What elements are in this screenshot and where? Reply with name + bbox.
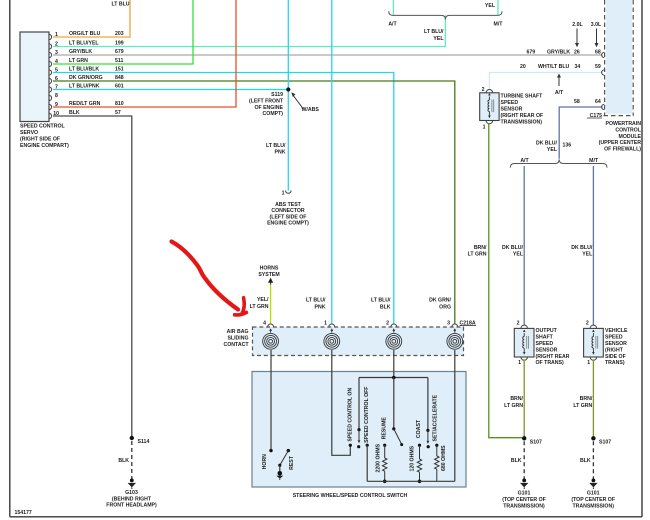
ABS test connector pin 1 bump xyxy=(286,191,292,194)
turbine sensor coil symbol xyxy=(488,93,494,118)
svg-text:CONNECTOR: CONNECTOR xyxy=(271,208,305,214)
svg-text:LT BLU: LT BLU xyxy=(111,2,129,8)
svg-text:1: 1 xyxy=(587,360,590,366)
clockspring spiral pin 2 xyxy=(386,328,402,349)
frame bottom border xyxy=(10,516,642,518)
svg-text:GRY/BLK: GRY/BLK xyxy=(69,49,92,55)
svg-text:2: 2 xyxy=(517,321,520,327)
svg-text:LT GRN: LT GRN xyxy=(573,403,592,409)
resistor bus wire xyxy=(367,480,455,482)
svg-text:WHT/LT BLU: WHT/LT BLU xyxy=(538,64,570,70)
svg-text:679: 679 xyxy=(527,49,536,55)
turbine shaft speed sensor box xyxy=(480,93,499,121)
svg-text:PNK: PNK xyxy=(315,304,326,310)
svg-text:2: 2 xyxy=(482,87,485,93)
resume contact, resistor 2200 ohms xyxy=(383,444,386,447)
svg-text:BLK: BLK xyxy=(511,458,522,464)
vehicle speed sensor box xyxy=(584,328,604,357)
svg-text:OF FIREWALL): OF FIREWALL) xyxy=(604,147,641,153)
svg-text:68: 68 xyxy=(595,49,601,55)
wire pin7 LT BLU/PNK 601 xyxy=(53,89,288,91)
wire LT BLU/PNK vertical to ABS test connector xyxy=(287,0,289,191)
label 679 GRY/BLK 26 68 (right) xyxy=(527,49,601,55)
svg-text:1: 1 xyxy=(324,320,327,326)
svg-text:(RIGHT: (RIGHT xyxy=(605,347,624,353)
wire BLK dashed to ground G101 (right) xyxy=(592,441,594,479)
output shaft speed sensor box xyxy=(514,328,534,357)
svg-text:COAST: COAST xyxy=(416,419,422,438)
A/T pointer arrow (WHT/LT BLU) xyxy=(555,74,564,97)
set/accelerate contact, resistor 680 ohms xyxy=(435,444,438,447)
svg-text:STEERING WHEEL/SPEED CONTROL S: STEERING WHEEL/SPEED CONTROL SWITCH xyxy=(293,493,408,499)
svg-text:(TOP CENTER OF: (TOP CENTER OF xyxy=(571,497,615,503)
svg-text:8: 8 xyxy=(55,93,58,99)
svg-text:M/T: M/T xyxy=(494,22,504,28)
svg-text:SPEED: SPEED xyxy=(501,100,519,106)
svg-text:136: 136 xyxy=(563,143,572,149)
wire pin3 GRY/BLK 679 to PCM xyxy=(53,54,603,56)
red annotation arrow xyxy=(172,242,247,315)
svg-text:4: 4 xyxy=(263,320,266,326)
svg-text:(RIGHT REAR OF: (RIGHT REAR OF xyxy=(501,113,544,119)
svg-text:TURBINE SHAFT: TURBINE SHAFT xyxy=(501,93,544,99)
svg-text:1: 1 xyxy=(282,190,285,196)
svg-text:LT BLU/PNK: LT BLU/PNK xyxy=(69,84,100,90)
svg-text:CONTACT: CONTACT xyxy=(224,342,250,348)
svg-text:GRY/BLK: GRY/BLK xyxy=(547,49,570,55)
wire pin10 BLK 57 down to S114 xyxy=(53,116,132,438)
svg-text:YEL: YEL xyxy=(485,3,496,9)
wire pin5 LT BLU/BLK 151 down to air bag pin 2 xyxy=(53,73,394,325)
wire pin9 RED/LT GRN 810 xyxy=(53,0,236,107)
rail center drop to resume/coast lever xyxy=(393,378,395,429)
switch rail wire xyxy=(359,377,428,379)
svg-text:DK BLU/: DK BLU/ xyxy=(536,141,558,147)
VSS pin 1 bump xyxy=(590,357,597,360)
svg-text:A/T: A/T xyxy=(520,158,529,164)
clockspring spiral pin 4 xyxy=(263,328,279,349)
svg-text:DK BLU/: DK BLU/ xyxy=(502,245,524,251)
svg-text:LT BLU/BLK: LT BLU/BLK xyxy=(69,67,99,73)
wire air bag pin2 to switch rail xyxy=(393,350,395,378)
label G103 (BEHIND RIGHT FRONT HEADLAMP) xyxy=(106,490,157,509)
clockspring spiral pin 1 xyxy=(324,328,340,349)
VSS pin 2 bump xyxy=(590,325,597,328)
svg-text:ABS TEST: ABS TEST xyxy=(275,202,301,208)
svg-text:LT GRN: LT GRN xyxy=(468,252,487,258)
svg-text:810: 810 xyxy=(115,101,124,107)
rail right drop, set/accelerate switch xyxy=(427,378,429,431)
brace grouping A/T and M/T of LT BLU/YEL xyxy=(389,11,502,19)
svg-text:(BEHIND RIGHT: (BEHIND RIGHT xyxy=(112,496,152,502)
VSS coil symbol xyxy=(592,330,598,355)
svg-text:SPEED: SPEED xyxy=(536,341,554,347)
svg-text:ORG: ORG xyxy=(439,304,451,310)
svg-text:YEL: YEL xyxy=(582,252,593,258)
PCM dashed border xyxy=(604,0,634,116)
clockspring spiral pin 3 xyxy=(447,328,463,349)
svg-text:26: 26 xyxy=(574,49,580,55)
svg-text:2: 2 xyxy=(386,320,389,326)
svg-text:SIDE OF: SIDE OF xyxy=(605,354,626,360)
servo pin bumps 1-10 xyxy=(49,34,52,118)
svg-text:199: 199 xyxy=(115,41,124,47)
svg-text:COMPT): COMPT) xyxy=(263,111,284,117)
svg-text:BRN/: BRN/ xyxy=(474,245,487,251)
svg-text:680 OHMS: 680 OHMS xyxy=(441,445,447,471)
svg-text:HORN: HORN xyxy=(262,454,268,470)
svg-text:BLK: BLK xyxy=(380,304,391,310)
svg-text:1: 1 xyxy=(518,360,521,366)
wire BRN/LT GRN from turbine sensor pin 1 to S107 xyxy=(489,123,522,437)
svg-text:58: 58 xyxy=(574,99,580,105)
wire BLK dashed to ground G103 xyxy=(131,441,133,479)
svg-text:G101: G101 xyxy=(587,491,600,497)
svg-text:ENGINE COMPART): ENGINE COMPART) xyxy=(20,143,69,149)
svg-text:203: 203 xyxy=(115,31,124,37)
svg-text:SPEED: SPEED xyxy=(605,335,623,341)
svg-text:MODULE: MODULE xyxy=(619,134,642,140)
svg-text:511: 511 xyxy=(115,58,123,64)
svg-text:DK BLU/: DK BLU/ xyxy=(571,245,593,251)
OSS pin 2 bump xyxy=(521,325,528,328)
svg-text:20: 20 xyxy=(520,64,526,70)
svg-text:OUTPUT: OUTPUT xyxy=(536,328,558,334)
frame right border xyxy=(641,0,643,517)
svg-text:151: 151 xyxy=(115,67,124,73)
svg-text:REST: REST xyxy=(289,455,295,470)
3.0L pointer arrow xyxy=(591,22,602,47)
svg-text:SLIDING: SLIDING xyxy=(227,336,248,342)
svg-text:ENGINE COMPT): ENGINE COMPT) xyxy=(267,221,309,227)
air bag sliding contact box xyxy=(253,327,464,356)
svg-text:LT GRN: LT GRN xyxy=(504,403,523,409)
splice S107 dot (right) xyxy=(591,436,595,440)
svg-text:TRANSMISSION): TRANSMISSION) xyxy=(572,503,614,509)
svg-text:1: 1 xyxy=(483,125,486,131)
svg-text:SENSOR: SENSOR xyxy=(501,106,523,112)
svg-text:FRONT HEADLAMP): FRONT HEADLAMP) xyxy=(106,503,157,509)
svg-text:LT BLU/: LT BLU/ xyxy=(371,298,391,304)
svg-text:S119: S119 xyxy=(271,92,283,98)
svg-text:SYSTEM: SYSTEM xyxy=(258,272,279,278)
svg-text:BLK: BLK xyxy=(580,458,591,464)
wire pin4 LT GRN 511 xyxy=(53,0,193,64)
svg-text:SPEED CONTROL ON: SPEED CONTROL ON xyxy=(348,388,354,442)
svg-text:YEL: YEL xyxy=(513,252,524,258)
coast contact, resistor 120 ohms xyxy=(418,444,421,447)
ground G103 symbol xyxy=(128,479,136,490)
PCM pin bumps xyxy=(602,52,605,109)
arrow to horns system xyxy=(268,278,273,285)
svg-text:679: 679 xyxy=(115,49,124,55)
svg-text:64: 64 xyxy=(595,99,601,105)
svg-text:(RIGHT SIDE OF: (RIGHT SIDE OF xyxy=(20,136,60,142)
svg-text:120 OHMS: 120 OHMS xyxy=(410,445,416,471)
svg-text:TRANSMISSION): TRANSMISSION) xyxy=(503,503,545,509)
svg-text:34: 34 xyxy=(575,64,581,70)
ground G101 symbol (right) xyxy=(589,479,597,490)
svg-text:PNK: PNK xyxy=(275,150,286,156)
turbine sensor pin 2 bump xyxy=(486,89,493,92)
svg-text:TRANSMISSION): TRANSMISSION) xyxy=(501,119,543,125)
svg-text:(TOP CENTER OF: (TOP CENTER OF xyxy=(502,497,546,503)
svg-text:VEHICLE: VEHICLE xyxy=(605,328,628,334)
speed control servo connector box xyxy=(20,32,49,122)
svg-text:(UPPER CENTER: (UPPER CENTER xyxy=(599,140,642,146)
2.0L pointer arrow xyxy=(572,22,583,47)
svg-text:2200 OHMS: 2200 OHMS xyxy=(375,443,381,472)
svg-text:OF TRANS): OF TRANS) xyxy=(536,360,565,366)
svg-text:TRANS): TRANS) xyxy=(605,360,625,366)
speed control on/off switch xyxy=(357,428,360,431)
svg-text:DK GRN/: DK GRN/ xyxy=(429,298,451,304)
label POWERTRAIN CONTROL MODULE xyxy=(599,121,642,153)
svg-text:SENSOR: SENSOR xyxy=(605,341,627,347)
ground G101 symbol (left) xyxy=(520,479,528,490)
label VEHICLE SPEED SENSOR xyxy=(605,328,628,366)
horn switch ground arrow xyxy=(276,476,283,479)
svg-text:G101: G101 xyxy=(518,491,531,497)
label S119 (LEFT FRONT OF ENGINE COMPT) xyxy=(249,92,284,117)
wire BLK dashed to ground G101 (left) xyxy=(523,441,525,479)
svg-text:DK GRN/ORG: DK GRN/ORG xyxy=(69,75,103,81)
svg-text:S114: S114 xyxy=(138,439,150,445)
svg-text:S107: S107 xyxy=(599,439,611,445)
splice S107 dot (left) xyxy=(522,436,526,440)
svg-text:YEL: YEL xyxy=(547,147,558,153)
svg-text:848: 848 xyxy=(115,75,124,81)
svg-text:HORNS: HORNS xyxy=(260,266,279,272)
wire air bag pin1 to speed control on contact xyxy=(332,350,351,455)
svg-text:LT BLU/: LT BLU/ xyxy=(306,298,326,304)
svg-text:OF ENGINE: OF ENGINE xyxy=(254,105,283,111)
svg-text:154177: 154177 xyxy=(15,510,32,516)
W/ABS arrow to splice xyxy=(291,92,319,113)
svg-text:LT BLU/YEL: LT BLU/YEL xyxy=(69,41,99,47)
label G101 (TOP CENTER OF TRANSMISSION) (left) xyxy=(502,491,546,510)
svg-text:CONTROL: CONTROL xyxy=(615,127,641,133)
svg-text:3: 3 xyxy=(447,320,450,326)
brace grouping A/T and M/T of DK BLU/YEL xyxy=(510,159,607,167)
svg-text:YEL: YEL xyxy=(433,36,444,42)
servo pin numbers xyxy=(53,32,59,117)
wire DK BLU/YEL from PCM pin 58/64 xyxy=(559,107,602,159)
svg-text:BRN/: BRN/ xyxy=(580,396,593,402)
svg-text:ORG/LT BLU: ORG/LT BLU xyxy=(69,31,101,37)
svg-text:(LEFT SIDE OF: (LEFT SIDE OF xyxy=(270,214,307,220)
wire pin2 LT BLU/YEL 199 xyxy=(53,15,445,46)
svg-text:POWERTRAIN: POWERTRAIN xyxy=(606,121,642,127)
svg-text:LT GRN: LT GRN xyxy=(69,58,88,64)
svg-text:YEL/: YEL/ xyxy=(257,297,269,303)
wire pin1 ORG/LT BLU 203 xyxy=(53,0,130,37)
label 20 WHT/LT BLU 34 59 xyxy=(520,64,601,70)
svg-text:S107: S107 xyxy=(530,439,542,445)
speed control off contact and wire to bus xyxy=(366,444,369,447)
svg-text:A/T: A/T xyxy=(555,90,564,96)
svg-text:BLK: BLK xyxy=(118,458,129,464)
splice S119 dot xyxy=(286,87,290,91)
label TURBINE SHAFT SPEED SENSOR xyxy=(501,93,544,125)
OSS coil symbol xyxy=(523,330,529,355)
svg-text:LT GRN: LT GRN xyxy=(250,304,269,310)
svg-text:SHAFT: SHAFT xyxy=(536,335,554,341)
svg-text:SENSOR: SENSOR xyxy=(536,347,558,353)
svg-text:G103: G103 xyxy=(125,490,138,496)
svg-text:AIR BAG: AIR BAG xyxy=(227,329,249,335)
speed control servo caption xyxy=(20,124,69,149)
wire BRN/LT GRN from OSS pin 1 to S107 xyxy=(523,359,525,437)
svg-text:BLK: BLK xyxy=(69,110,80,116)
svg-text:59: 59 xyxy=(595,64,601,70)
svg-text:2.0L: 2.0L xyxy=(572,22,583,28)
wire air bag pin3 to resistor bus xyxy=(454,350,456,481)
svg-text:RESUME: RESUME xyxy=(381,417,387,440)
rail left drop wire xyxy=(358,378,360,430)
wire BRN/LT GRN from VSS pin 1 to S107 (right) xyxy=(592,359,594,437)
label AIR BAG SLIDING CONTACT xyxy=(224,329,250,348)
svg-text:BRN/: BRN/ xyxy=(510,396,523,402)
svg-text:M/T: M/T xyxy=(589,158,599,164)
svg-text:SET/ACCELERATE: SET/ACCELERATE xyxy=(433,394,439,441)
svg-text:A/T: A/T xyxy=(388,22,397,28)
horn switch contacts xyxy=(269,449,272,452)
PCM fill xyxy=(606,0,632,114)
svg-text:LT BLU/: LT BLU/ xyxy=(424,29,444,35)
wire pin6 DK GRN/ORG 848 down to air bag pin 3 xyxy=(53,81,455,324)
wire DK BLU/YEL M/T branch to vehicle speed sensor pin 2 xyxy=(592,166,594,325)
svg-text:(RIGHT REAR: (RIGHT REAR xyxy=(536,354,570,360)
svg-text:SERVO: SERVO xyxy=(20,130,38,136)
svg-text:SPEED CONTROL: SPEED CONTROL xyxy=(20,124,66,130)
label G101 (TOP CENTER OF TRANSMISSION) (right) xyxy=(571,491,615,510)
svg-text:57: 57 xyxy=(115,110,121,116)
svg-text:SPEED CONTROL OFF: SPEED CONTROL OFF xyxy=(364,386,370,442)
wire DK BLU/YEL A/T branch to output shaft sensor pin 2 xyxy=(523,166,525,325)
label ABS TEST CONNECTOR xyxy=(267,202,309,227)
wire LT BLU/PNK from top to air bag pin 1 xyxy=(331,0,333,324)
air bag pin bumps xyxy=(268,324,458,327)
wire YEL/LT GRN to air bag pin 4 xyxy=(270,285,272,325)
wire horn from spiral to horn contact xyxy=(270,350,272,449)
wire WHT/LT BLU from PCM to turbine sensor pin 2 xyxy=(489,73,602,91)
svg-text:RED/LT GRN: RED/LT GRN xyxy=(69,101,101,107)
svg-text:(LEFT FRONT: (LEFT FRONT xyxy=(249,99,284,105)
splice S114 dot xyxy=(130,436,134,440)
svg-text:3.0L: 3.0L xyxy=(591,22,602,28)
svg-text:601: 601 xyxy=(115,84,124,90)
frame left border xyxy=(9,0,11,517)
horn switch lever xyxy=(280,451,288,465)
label OUTPUT SHAFT SPEED SENSOR xyxy=(536,328,570,366)
svg-text:LT BLU/: LT BLU/ xyxy=(266,143,286,149)
turbine sensor pin 1 bump xyxy=(486,121,493,124)
wire LT BLU/YEL A/T branch xyxy=(392,0,394,15)
OSS pin 1 bump xyxy=(521,357,528,360)
svg-text:W/ABS: W/ABS xyxy=(302,107,320,113)
wire LT BLU/YEL M/T branch xyxy=(497,0,499,15)
svg-text:2: 2 xyxy=(586,321,589,327)
steering wheel/speed control switch box xyxy=(252,372,466,488)
